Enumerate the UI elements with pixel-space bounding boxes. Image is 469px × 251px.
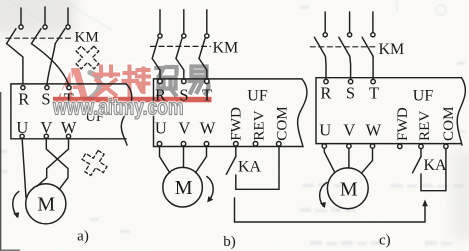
svg-text:UF: UF <box>413 87 434 104</box>
wire L3 feed (b) <box>206 10 208 34</box>
terminal REV (c) <box>419 144 423 148</box>
annotation line b to c <box>235 198 426 222</box>
svg-text:V: V <box>40 118 52 137</box>
svg-text:S: S <box>346 83 355 102</box>
terminal T (a) <box>67 86 71 90</box>
svg-text:COM: COM <box>274 106 291 141</box>
svg-text:REV: REV <box>416 111 433 141</box>
bleed marks right margin <box>300 5 465 133</box>
wire KM pole3 to terminal T (b) <box>199 59 207 80</box>
bleed row bottom-right 2 <box>300 208 356 212</box>
char 1 (red) <box>95 67 119 96</box>
wire KM pole2 crossing to terminal T (a) <box>31 44 69 86</box>
terminal U (b) <box>157 142 162 147</box>
svg-text:KM: KM <box>379 41 405 58</box>
terminal V (b) <box>181 142 186 147</box>
contactor KM (c) blades <box>314 37 373 56</box>
char 3 (gray) <box>157 67 177 95</box>
svg-text:U: U <box>319 121 331 140</box>
wire W crossing to motor (a) <box>37 138 69 186</box>
svg-text:COM: COM <box>440 106 457 141</box>
wire KM pole3 to terminal T (c) <box>372 56 374 79</box>
svg-text:KA: KA <box>238 159 262 176</box>
terminal FWD (c) <box>398 144 402 148</box>
watermark logo star <box>58 85 72 98</box>
wire U to motor (c) <box>324 148 335 172</box>
terminal COM (c) <box>444 144 448 148</box>
svg-text:V: V <box>178 118 190 137</box>
terminal FWD (b) <box>234 142 239 147</box>
watermark chinese characters white halo <box>95 67 209 96</box>
rotation arrow (a) <box>13 192 19 217</box>
wire W to motor (b) <box>196 146 207 173</box>
svg-text:UF: UF <box>247 88 268 105</box>
svg-text:FWD: FWD <box>228 107 245 141</box>
relay contact KA (b) stub from FWD <box>235 146 237 157</box>
relay contact KA (c) stub from REV <box>420 149 422 157</box>
contactor KM (a) blades <box>7 29 65 44</box>
terminal S (c) <box>348 79 352 83</box>
svg-text:U: U <box>155 118 167 137</box>
wire KA to COM bottom (b) <box>236 188 279 190</box>
bleed crease top <box>396 0 398 11</box>
annotation arrowhead into KA (c) <box>422 200 428 207</box>
terminal COM (b) <box>277 142 282 147</box>
svg-text:REV: REV <box>251 110 268 140</box>
watermark logo swoosh <box>86 73 99 100</box>
wire U to motor (a) <box>22 138 26 197</box>
svg-text:KM: KM <box>75 30 99 46</box>
char 4 (gray) <box>190 67 209 94</box>
contactor KM (b) blades <box>152 39 205 59</box>
terminal W (b) <box>204 142 209 147</box>
terminal U (a) <box>20 134 24 138</box>
wire L2 feed (c) <box>349 12 351 33</box>
contactor KM (a) linkage dashed <box>6 37 73 39</box>
relay contact KA (b) lower stub <box>235 175 237 189</box>
watermark red underline bar <box>53 97 212 103</box>
inverter box UF (c) <box>316 78 465 146</box>
wire KA to COM bottom (c) <box>421 190 446 192</box>
terminal T (b) <box>205 79 210 84</box>
wire KM pole2 to terminal S (b) <box>176 59 184 80</box>
svg-text:W: W <box>61 118 77 137</box>
phase-swap cross mark lower (a) <box>77 146 111 180</box>
bleed row bottom 3 <box>310 241 452 245</box>
svg-text:www.aitmy.com: www.aitmy.com <box>52 96 183 121</box>
svg-text:V: V <box>343 121 355 140</box>
phase-swap cross mark upper (a) <box>70 40 105 75</box>
wire L2 feed (b) <box>183 10 185 34</box>
wire V to motor (c) <box>348 148 350 168</box>
bleed row bottom-right 1 <box>302 183 464 188</box>
wire V to motor (b) <box>183 146 185 168</box>
wire KM pole1 to terminal R (b) <box>152 59 160 80</box>
wire L3 feed (a) <box>67 8 69 25</box>
terminal S (a) <box>45 86 49 90</box>
svg-text:c): c) <box>379 233 391 249</box>
svg-text:a): a) <box>77 229 89 245</box>
contactor KM (c) pole contacts <box>323 33 375 37</box>
terminal R (c) <box>324 79 328 83</box>
relay contact KA (b) blade <box>226 157 236 175</box>
svg-text:b): b) <box>223 234 236 250</box>
terminal R (b) <box>158 79 163 84</box>
inverter box UF (b) <box>154 79 307 147</box>
inverter box UF (a) <box>11 84 132 145</box>
watermark chinese characters (pseudo-glyph strokes) <box>95 67 150 96</box>
terminal W (c) <box>370 144 374 148</box>
terminal S (b) <box>182 79 187 84</box>
terminal U (c) <box>322 144 326 148</box>
wire L3 feed (c) <box>372 12 374 33</box>
svg-text:KA: KA <box>424 157 448 174</box>
wire COM drop (c) <box>445 149 447 191</box>
rotation arrow (b) <box>207 177 213 201</box>
contactor KM (c) linkage dashed <box>310 46 378 48</box>
wire W to motor (c) <box>362 148 373 173</box>
svg-text:T: T <box>369 83 379 102</box>
wire COM drop (b) <box>278 146 280 189</box>
contactor KM (b) linkage dashed <box>151 45 211 47</box>
bleed diagonal top-left <box>10 1 112 30</box>
svg-text:KM: KM <box>213 40 239 57</box>
wire KM pole3 crossing to terminal S (a) <box>47 44 55 86</box>
svg-text:S: S <box>41 90 50 109</box>
svg-text:FWD: FWD <box>394 107 411 141</box>
watermark logo A <box>57 67 90 100</box>
motor M1 circle (a) <box>26 184 66 224</box>
svg-text:W: W <box>366 121 382 140</box>
bleed marks left margin <box>1 150 130 233</box>
svg-text:M: M <box>37 194 55 216</box>
svg-text:M: M <box>340 178 358 200</box>
svg-text:M: M <box>175 177 193 199</box>
wire KM pole1 to terminal R (c) <box>324 56 327 79</box>
wire L1 feed (c) <box>324 12 326 33</box>
wire L1 feed (b) <box>159 10 161 34</box>
wire KM pole2 to terminal S (c) <box>349 56 352 79</box>
terminal R (a) <box>21 86 25 90</box>
wire U to motor (b) <box>160 146 170 173</box>
relay contact KA (c) lower stub <box>420 174 422 191</box>
terminal REV (b) <box>253 142 258 147</box>
svg-text:T: T <box>202 86 212 105</box>
wire V crossing to motor (a) <box>46 138 68 189</box>
wire L1 feed (a) <box>20 8 22 25</box>
contactor KM (b) pole contacts <box>158 34 209 38</box>
terminal V (c) <box>347 144 351 148</box>
terminal T (c) <box>371 79 375 83</box>
terminal V (a) <box>44 134 48 138</box>
contactor KM (a) pole contacts <box>19 25 70 29</box>
relay contact KA (c) blade <box>413 157 422 173</box>
wire KM pole1 to terminal R (a) <box>7 44 23 84</box>
svg-text:R: R <box>320 83 331 102</box>
rotation arrow (c) <box>320 183 327 207</box>
wire L2 feed (a) <box>44 7 46 25</box>
terminal W (a) <box>66 134 70 138</box>
svg-text:W: W <box>200 118 216 137</box>
motor M3 circle (c) <box>327 168 368 209</box>
page edge artifacts <box>0 92 20 251</box>
char 2 (red) <box>124 67 150 96</box>
svg-text:U: U <box>16 118 28 137</box>
svg-text:R: R <box>18 90 29 109</box>
motor M2 circle (b) <box>163 167 203 207</box>
